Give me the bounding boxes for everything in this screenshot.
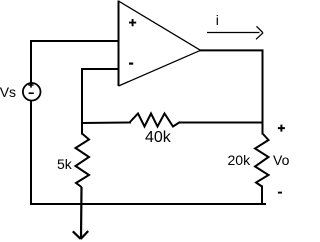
svg-text:Vs: Vs [0, 84, 16, 100]
svg-text:5k: 5k [57, 156, 73, 172]
svg-text:20k: 20k [228, 152, 252, 168]
svg-text:i: i [216, 12, 219, 28]
svg-text:Vo: Vo [273, 152, 290, 168]
svg-text:40k: 40k [145, 129, 172, 146]
